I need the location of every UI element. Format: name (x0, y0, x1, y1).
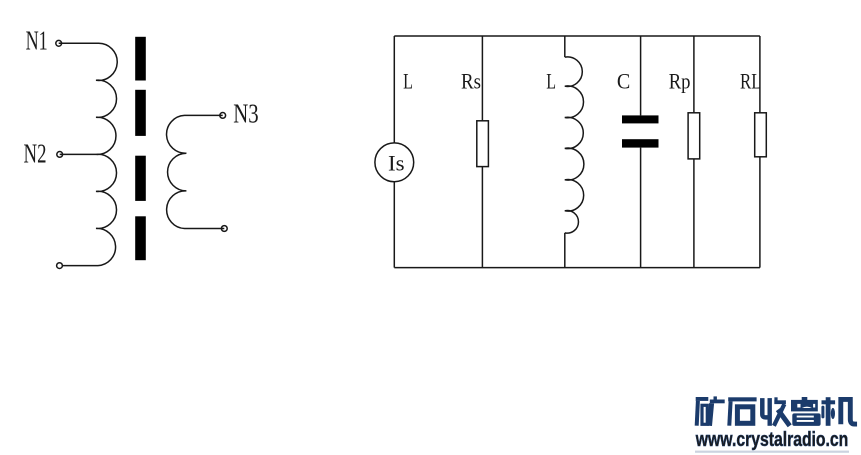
wire C top (640, 36, 642, 115)
wire N2 tap (60, 153, 96, 155)
winding N3 secondary (167, 115, 225, 228)
bottom rail (394, 267, 760, 269)
wire Rp bottom (693, 159, 695, 268)
terminal N2 (57, 152, 63, 158)
wire L top (564, 36, 566, 57)
terminal primary bottom (57, 263, 63, 269)
wire L bottom (564, 233, 566, 268)
terminal N3 top (220, 113, 226, 119)
wire RL bottom (759, 157, 761, 268)
resistor RL (755, 113, 767, 157)
svg-text:Rs: Rs (461, 68, 481, 93)
svg-text:N2: N2 (24, 138, 47, 168)
current source Is (375, 143, 414, 182)
capacitor C (622, 115, 659, 147)
terminal N1 (56, 40, 62, 46)
svg-text:L: L (546, 68, 556, 93)
top rail (394, 35, 760, 37)
svg-text:C: C (617, 68, 630, 93)
wire Rs top (481, 36, 483, 121)
svg-text:Rp: Rp (669, 68, 691, 93)
wire Rs bottom (481, 167, 483, 268)
terminal N3 bottom (221, 226, 227, 232)
wire Rp top (693, 36, 695, 113)
wire RL top (759, 36, 761, 113)
resistor Rp (688, 113, 700, 159)
inductor L (565, 57, 584, 233)
transformer core (135, 37, 146, 260)
svg-text:www.crystalradio.cn: www.crystalradio.cn (695, 429, 848, 451)
wire left edge bottom (393, 182, 395, 268)
wire C bottom (640, 148, 642, 268)
svg-text:N1: N1 (26, 26, 48, 56)
svg-text:RL: RL (740, 68, 762, 93)
svg-text:Is: Is (388, 150, 405, 175)
svg-text:N3: N3 (233, 99, 258, 129)
winding N1-N2 primary (59, 43, 118, 265)
resistor Rs (477, 121, 489, 167)
watermark logo (696, 396, 855, 426)
url ghost artifact (695, 451, 849, 453)
wire left edge top (393, 36, 395, 143)
svg-text:L: L (403, 68, 413, 93)
